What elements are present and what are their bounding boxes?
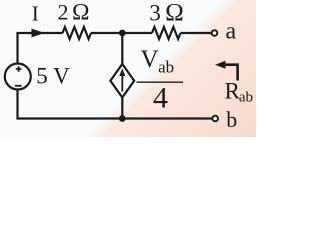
wire: dependent source top lead (121, 33, 123, 64)
junction node dot bottom (119, 115, 126, 122)
resistor R 3-ohm zigzag (152, 27, 181, 39)
wire top-left: source to 2-ohm resistor (18, 33, 63, 64)
svg-text:5 V: 5 V (36, 64, 70, 89)
wire: node to 3-ohm resistor handled above; wire 3-ohm to terminal a (181, 32, 212, 34)
minus sign of source (15, 85, 22, 87)
dependent source diamond (110, 64, 134, 98)
svg-text:3Ω: 3Ω (149, 0, 184, 27)
svg-text:4: 4 (153, 81, 168, 114)
R_ab looking-in arrow (223, 65, 238, 81)
fraction bar (137, 81, 184, 83)
wire: dependent source bottom lead (121, 98, 123, 119)
terminal b open circle (212, 116, 218, 122)
plus sign of source (16, 66, 22, 72)
svg-text:2Ω: 2Ω (58, 0, 90, 26)
svg-text:a: a (226, 19, 237, 45)
junction node dot top (119, 30, 126, 37)
svg-text:I: I (32, 1, 39, 25)
wire left: source bottom to bottom rail (18, 90, 213, 119)
voltage source V1 circle (5, 64, 31, 90)
terminal a open circle (212, 30, 218, 36)
svg-text:b: b (226, 107, 237, 132)
dependent source internal arrow (121, 74, 123, 92)
wire: 2-ohm resistor to node at top of dependent source (91, 32, 152, 34)
current arrow I on top wire (32, 29, 45, 38)
resistor R 2-ohm zigzag (63, 27, 92, 39)
